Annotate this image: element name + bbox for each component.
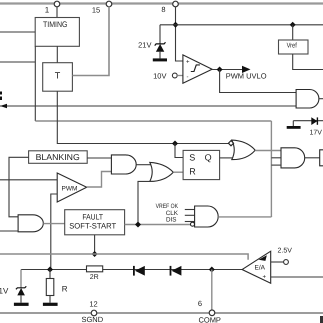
arrow left edge [0,104,7,108]
svg-text:PWM: PWM [62,186,78,193]
resistor 2R [87,266,103,272]
wire riser TIMING-left down to ramp line [34,46,36,121]
wire OR3 output [255,150,281,152]
pin 15 terminal [106,1,112,7]
svg-text:12: 12 [89,300,97,309]
wire OR2 bottom input riser from fault line [138,181,153,224]
wire top border rail [0,2,323,4]
or-gate U-OR2 [150,162,174,181]
svg-text:6: 6 [198,299,202,308]
wire AND1 output [319,98,323,100]
gate fragment at right edge [320,150,323,166]
block TIMING [35,18,79,47]
svg-text:R: R [189,167,196,177]
wire left stub y62 [0,61,35,63]
pin 6 terminal [209,310,215,316]
node Vref junction [290,22,296,28]
wire zener to ground [159,52,161,59]
wire zener 5.1V riser [20,270,22,289]
zener diode 21V [156,44,164,52]
wire down to 21V zener [159,25,161,44]
svg-text:1: 1 [45,6,50,15]
wire AND3 input stubs [185,209,195,211]
wire ramp line B [35,120,271,122]
block SR latch [183,150,220,179]
wire AND3 output [218,216,271,218]
wire pin1 to TIMING [56,7,58,18]
wire pin8 to Vref and right edge [160,24,323,26]
svg-text:E/A: E/A [255,264,266,271]
wire to S input [175,144,183,158]
wire soft-start / E/A output line L2 [21,269,242,271]
pin 8 terminal [173,1,179,7]
svg-text:SGND: SGND [81,315,103,323]
pin 12 terminal [91,310,97,316]
wire FAULT output to AND3 bubble [125,224,191,226]
arrow inside E/A top [259,255,267,261]
and-gate U-AND1 top right [296,90,319,109]
node S riser junction [172,141,178,147]
block T (toggle flip-flop) [43,63,73,91]
svg-text:COMP: COMP [198,316,221,323]
svg-text:15: 15 [92,6,100,15]
node comparator output junction [217,67,223,73]
wire FAULT bottom riser [94,235,96,254]
svg-text:1V: 1V [0,286,9,295]
wire bottom rail [0,312,323,314]
wire Q output [220,157,233,159]
svg-text:10V: 10V [153,72,166,81]
ground below 21V zener [153,58,167,61]
terminal 2.5V [271,261,284,263]
wire TIMING to T [56,46,58,62]
wire blanking right to AND2 [87,157,111,159]
left edge cut text fragment [0,92,2,95]
block FAULT SOFT-START [65,210,125,235]
node on soft-start line [92,251,98,257]
svg-text:+: + [263,275,267,281]
wire T output line to latch/OR [57,91,229,143]
bubble on OR3 top input [228,141,233,146]
wire left stub to TIMING [0,31,35,33]
ground for 17V clamp [287,126,301,129]
wire Vref bottom to right edge [293,54,323,70]
svg-text:2.5V: 2.5V [278,248,293,255]
op-amp UVLO comparator [183,55,212,83]
and-gate U-AND4 [281,148,305,168]
wire pin6 riser [211,270,213,311]
wire comparator output [212,69,242,71]
or-gate U-OR3 with inverted input [232,140,255,160]
wire PWM bottom input riser [51,194,57,270]
node pin8 junction [173,22,179,28]
svg-text:BLANKING: BLANKING [36,152,80,162]
op-amp E/A error amplifier [242,251,271,283]
wire fault AND out [43,223,64,225]
wire AND2 out [136,164,151,166]
bubble on AND3 low input [191,222,195,226]
diode D1 [135,266,145,276]
diode D2 [172,266,182,276]
and-gate U-AND2 [111,155,136,174]
svg-text:T: T [55,71,61,81]
wire ramp line A with left arrow [0,105,296,107]
wire blanking left riser to fault AND [9,157,29,217]
svg-text:17V: 17V [310,130,323,137]
wire E/A plus input to edge [271,276,323,278]
and-gate fault AND [18,215,43,232]
pin 1 terminal [54,1,60,7]
svg-text:-: - [187,75,189,81]
svg-text:Q: Q [205,152,212,162]
svg-text:SOFT-START: SOFT-START [69,222,116,231]
block Vref [292,25,294,40]
terminal 10V input [172,73,177,78]
ground below zener [14,303,29,306]
svg-text:PWM UVLO: PWM UVLO [226,72,267,81]
wire pin15 to T right side [72,7,109,76]
svg-text:S: S [189,152,195,162]
node L2 left junction [47,267,53,273]
svg-text:21V: 21V [138,41,151,50]
node L2 comp junction [209,267,215,273]
svg-text:R: R [62,285,68,294]
svg-text:+: + [186,60,190,66]
svg-text:VREF OK: VREF OK [156,203,179,210]
svg-text:DIS: DIS [166,217,177,224]
op-amp PWM comparator [57,173,86,202]
wire E/A upper line L1 [0,254,248,260]
svg-text:TIMING: TIMING [43,20,68,29]
node fault line junction [135,222,141,228]
resistor R [49,270,51,279]
wire AND4 input stubs from x271 [271,157,281,159]
block BLANKING [29,151,88,164]
svg-text:FAULT: FAULT [82,212,103,221]
wire comparator to AND gate top input [220,70,297,93]
wire OR2 out to R input [173,171,183,173]
ground below R [43,303,58,306]
wire PWM output to AND2 [87,172,112,188]
wire fault AND bottom input [0,230,18,232]
svg-text:Vref: Vref [287,42,297,50]
wire 17V clamp line [293,120,323,122]
diode 17V [311,117,317,125]
wire vertical x271 [270,121,272,217]
arrow PWM UVLO [242,66,251,73]
zener diode 1V [16,286,26,289]
and-gate U-AND3 [195,206,219,227]
svg-text:2R: 2R [90,274,99,281]
bottom right corner fragment [320,316,323,323]
wire AND4 out [305,157,320,159]
wire PWM top input [0,179,57,181]
svg-text:8: 8 [161,5,165,14]
wire pin8 riser [176,7,183,62]
